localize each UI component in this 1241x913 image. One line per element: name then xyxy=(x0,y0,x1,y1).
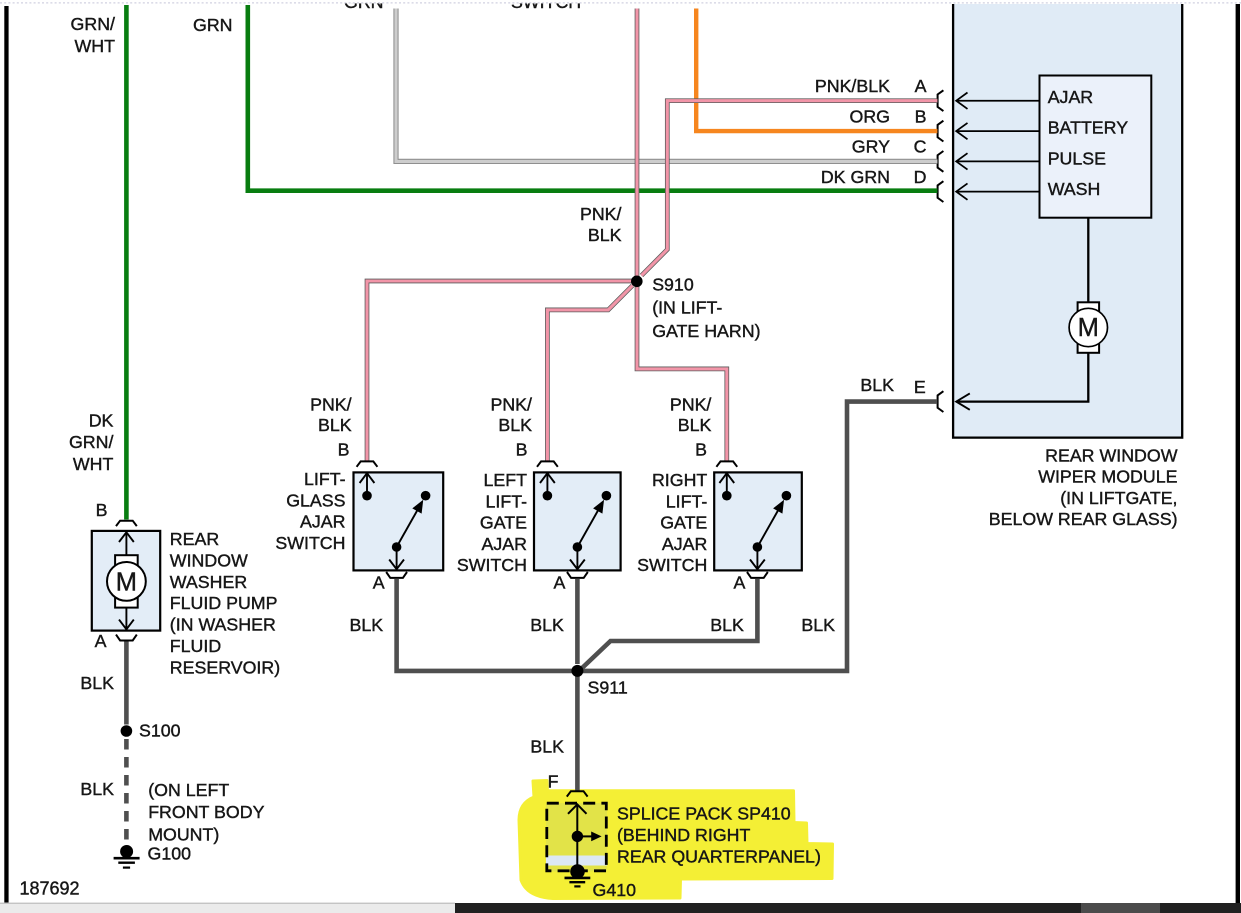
svg-text:A: A xyxy=(554,573,566,593)
wire GRY from top to module terminal C xyxy=(396,9,937,162)
module internal wire from motor to terminal E xyxy=(956,353,1088,402)
splice pack SP410 dashed box xyxy=(547,803,607,871)
wire BLK from washer pump A to S100 xyxy=(124,642,129,725)
svg-text:B: B xyxy=(516,439,528,459)
rear window wiper module box xyxy=(952,4,1183,439)
faint dotted rule across top of page xyxy=(0,2,1241,4)
washer pump connector at A xyxy=(116,635,137,641)
svg-text:187692: 187692 xyxy=(20,879,80,899)
svg-text:ORG: ORG xyxy=(849,106,890,126)
svg-text:GRN: GRN xyxy=(193,15,233,35)
wiper motor M inside module xyxy=(1087,218,1089,303)
svg-text:G100: G100 xyxy=(148,844,192,864)
ground G100 xyxy=(120,845,133,858)
left lift-gate ajar switch terminal B contact xyxy=(546,473,548,495)
yellow marker highlight blob around SP410 xyxy=(519,781,833,899)
right lift-gate ajar switch box xyxy=(714,472,802,570)
wire DK GRN/WHT (left green) from top to washer pump B xyxy=(124,5,129,520)
module arrow to pin B xyxy=(956,130,1039,132)
svg-text:C: C xyxy=(914,137,927,157)
washer pump connector at B xyxy=(116,521,137,526)
left lift-gate ajar switch connector at B xyxy=(537,461,558,466)
svg-text:BLK: BLK xyxy=(860,375,894,395)
left page border xyxy=(4,6,8,903)
svg-text:M: M xyxy=(116,568,137,596)
washer pump motor M xyxy=(115,555,138,607)
wire BLK from lift-glass switch A to S911 xyxy=(397,579,572,671)
SP410 internal bus with up arrow xyxy=(576,806,578,868)
svg-text:BLK: BLK xyxy=(530,615,564,635)
svg-text:M: M xyxy=(1078,314,1099,342)
module arrow to pin D xyxy=(956,191,1039,193)
svg-text:BLK: BLK xyxy=(80,673,114,693)
module inner box xyxy=(1040,76,1152,218)
white strip masking top of cut-off labels xyxy=(0,0,1241,3)
svg-text:D: D xyxy=(914,167,927,187)
svg-text:A: A xyxy=(373,573,385,593)
lift-glass ajar switch terminal A contact xyxy=(392,542,402,552)
svg-text:B: B xyxy=(338,439,350,459)
wire PNK/BLK from module terminal A to S910 xyxy=(642,101,938,276)
wire PNK/BLK branch from S910 to left lift-gate ajar switch B xyxy=(547,286,632,462)
right lift-gate ajar switch movable blade xyxy=(782,491,792,501)
right page border xyxy=(1236,4,1240,904)
svg-text:BLK: BLK xyxy=(349,615,383,635)
svg-text:F: F xyxy=(548,772,559,792)
svg-text:BLK: BLK xyxy=(801,615,835,635)
lift-glass ajar switch connector at A xyxy=(386,572,407,578)
bottom scrollbar track (left light segment) xyxy=(0,903,455,913)
svg-text:GRN/WHT: GRN/WHT xyxy=(71,14,116,56)
SP410 tap with right arrow xyxy=(572,831,583,842)
left lift-gate ajar switch connector at A xyxy=(567,572,588,578)
wire PNK/BLK branch from S910 to lift-glass ajar switch B xyxy=(367,281,632,461)
svg-text:B: B xyxy=(915,106,927,126)
left lift-gate ajar switch terminal A contact xyxy=(573,542,583,552)
module connector terminal A xyxy=(938,90,944,111)
svg-text:S100: S100 xyxy=(139,721,181,741)
lift-glass ajar switch movable blade xyxy=(421,491,431,501)
module connector terminal B xyxy=(938,121,944,142)
splice S100 xyxy=(121,725,133,737)
svg-text:BLK: BLK xyxy=(710,615,744,635)
svg-text:A: A xyxy=(915,76,927,96)
svg-text:B: B xyxy=(96,500,108,520)
module arrow to pin A xyxy=(956,100,1039,102)
wire ORG from top to module terminal B xyxy=(696,9,937,132)
washer pump internal wire with arrows xyxy=(125,533,127,630)
module arrow to pin C xyxy=(956,160,1039,162)
left lift-gate ajar switch movable blade xyxy=(602,491,612,501)
lift-glass ajar switch box xyxy=(354,472,444,570)
wire BLK from left lift-gate switch A to S911 xyxy=(575,579,580,664)
svg-text:BLK: BLK xyxy=(80,779,114,799)
svg-text:G410: G410 xyxy=(593,880,637,900)
svg-text:DK GRN: DK GRN xyxy=(821,167,890,187)
lift-glass ajar switch connector at B xyxy=(357,461,378,466)
svg-text:A: A xyxy=(95,631,107,651)
module connector terminal C xyxy=(938,151,944,172)
right lift-gate ajar switch terminal A contact xyxy=(753,542,763,552)
right lift-gate ajar switch connector at B xyxy=(716,461,737,466)
module connector terminal E xyxy=(938,391,944,412)
lift-glass ajar switch terminal B contact xyxy=(366,473,368,495)
connector at SP410 terminal F xyxy=(567,791,588,796)
wire BLK from S911 to module terminal E xyxy=(583,402,937,671)
splice S911 xyxy=(571,665,583,677)
wire PNK/BLK branch from S910 to right lift-gate ajar switch B xyxy=(637,286,727,461)
svg-text:GRY: GRY xyxy=(852,137,890,157)
svg-text:B: B xyxy=(695,439,707,459)
rear window washer fluid pump box xyxy=(92,531,160,631)
ground G410 xyxy=(570,864,585,879)
wire BLK from right lift-gate switch A to S911 xyxy=(581,579,758,670)
SP410 highlighted fill inside dashed box xyxy=(546,803,607,856)
wire PNK/BLK from top down to splice S910 xyxy=(635,9,640,279)
right lift-gate ajar switch terminal B contact xyxy=(726,473,728,495)
wire BLK from S911 down to splice pack SP410 xyxy=(575,676,580,791)
svg-text:S911: S911 xyxy=(588,678,628,698)
wire BLK dashed from S100 to ground G100 xyxy=(124,739,129,848)
wire DK GRN from top to module terminal D xyxy=(248,5,938,191)
bottom scrollbar (dark segment) xyxy=(455,903,1241,913)
svg-text:BLK: BLK xyxy=(530,737,564,757)
right lift-gate ajar switch connector at A xyxy=(747,572,768,578)
module connector terminal D xyxy=(938,181,944,202)
svg-text:PNK/BLK: PNK/BLK xyxy=(815,76,890,96)
splice S910 xyxy=(631,276,643,288)
svg-text:E: E xyxy=(914,377,926,397)
svg-text:A: A xyxy=(734,573,746,593)
left lift-gate ajar switch box xyxy=(534,472,621,570)
